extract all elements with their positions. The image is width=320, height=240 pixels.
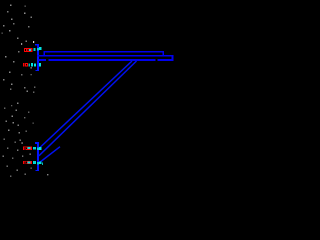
diagonal brace top edge xyxy=(39,61,132,149)
constraint symbol group 2: red box xyxy=(25,63,28,66)
node marker segment on lower column at lower attach xyxy=(37,162,39,165)
node marker extra bit right of lower attach xyxy=(42,163,43,165)
beam top chord (line 1) xyxy=(43,51,164,53)
wall column upper top tick xyxy=(35,44,37,46)
beam mid chord (line 2) xyxy=(37,55,174,57)
constraint symbol group 3: cyan fill xyxy=(28,147,31,149)
constraint symbol group 3: black slot xyxy=(24,147,27,150)
constraint symbol group 2: red bar xyxy=(23,63,24,66)
node marker segment on upper column xyxy=(37,48,39,50)
wall column upper (vertical member) xyxy=(37,44,39,71)
node marker at diagonal lower attach: right flank xyxy=(39,162,41,165)
constraint symbol group 3: cyan dot xyxy=(33,147,35,150)
node marker at diagonal upper attach: left flank xyxy=(33,147,36,150)
constraint symbol group 1: black slots xyxy=(25,49,26,51)
constraint symbol group 3: red frame xyxy=(23,147,32,150)
beam bottom chord (line 3) right piece after gap xyxy=(158,59,173,61)
beam tip end cap vertical xyxy=(172,55,174,61)
diagonal brace bottom edge near wall (bright stub) xyxy=(39,147,60,163)
beam top chord left end connector xyxy=(43,51,45,57)
node marker at diagonal lower attach: left flank xyxy=(33,161,36,164)
node marker right of upper column top xyxy=(39,47,42,50)
constraint symbol group 4: cyan dot xyxy=(33,161,35,164)
constraint symbol group 1: cyan fill xyxy=(29,49,31,51)
wall column upper bottom foot tick xyxy=(35,70,37,71)
constraint symbol group 4: cyan fill xyxy=(28,162,31,164)
diagonal brace centerline xyxy=(39,61,137,156)
wall column lower bottom foot tick xyxy=(36,170,38,171)
constraint symbol group 1: cyan dot xyxy=(34,48,36,51)
node marker at diagonal upper attach: right flank xyxy=(39,147,41,150)
constraint symbol group 4: red frame xyxy=(23,161,32,164)
wall column lower (vertical member) xyxy=(37,142,39,171)
node marker right of column at wall mid node xyxy=(39,63,41,67)
beam bottom chord (line 3) main xyxy=(49,59,156,61)
beam top chord right end step down xyxy=(162,51,164,57)
constraint symbol group 4: black slot xyxy=(24,162,27,165)
wall column lower top tick xyxy=(35,142,37,144)
constraint symbol group 1: red frame xyxy=(24,48,33,52)
constraint symbol group 2: cyan dots xyxy=(28,63,30,66)
beam bottom chord (line 3) left stub xyxy=(39,59,46,61)
node marker segment on lower column at upper attach xyxy=(37,148,39,151)
star speck field xyxy=(2,5,49,177)
